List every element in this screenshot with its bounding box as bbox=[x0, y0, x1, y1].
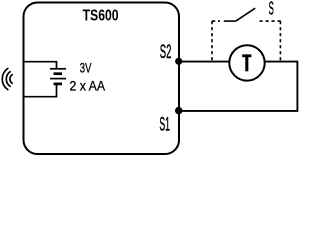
enclosure TS600 box bbox=[24, 3, 180, 155]
switch S dashed leg right bbox=[279, 21, 281, 62]
switch S dashed outline top right bbox=[260, 20, 282, 22]
battery B1 plate long 2 bbox=[50, 78, 66, 80]
battery B1 plate short 1 bbox=[54, 72, 63, 75]
switch S arm bbox=[236, 8, 255, 21]
switch S dashed leg left bbox=[211, 21, 213, 62]
svg-text:S1: S1 bbox=[159, 115, 170, 136]
wire battery positive lead bbox=[24, 62, 57, 68]
battery B1 plate short 2 bbox=[54, 83, 63, 86]
wire S2 to thermostat bbox=[179, 61, 229, 63]
node S1 terminal dot bbox=[175, 107, 182, 114]
sounder wave arc middle bbox=[6, 72, 10, 87]
svg-text:TS600: TS600 bbox=[83, 8, 119, 25]
label T bar bbox=[242, 54, 251, 57]
sounder wave arc inner bbox=[10, 75, 12, 84]
label T stem bbox=[245, 54, 248, 71]
node S2 terminal dot bbox=[175, 58, 182, 65]
svg-text:S: S bbox=[269, 0, 274, 19]
battery B1 plate long 1 bbox=[50, 68, 66, 70]
thermostat T circle bbox=[229, 45, 264, 80]
switch S dashed outline top left bbox=[212, 20, 220, 22]
wire thermostat to S1 bbox=[180, 62, 297, 111]
svg-text:S2: S2 bbox=[160, 42, 172, 63]
switch S fixed contact bbox=[224, 20, 236, 22]
wire battery negative lead bbox=[24, 84, 57, 97]
svg-text:2 x AA: 2 x AA bbox=[70, 79, 106, 95]
svg-text:3V: 3V bbox=[80, 61, 92, 76]
sounder wave arc outer bbox=[2, 68, 8, 89]
